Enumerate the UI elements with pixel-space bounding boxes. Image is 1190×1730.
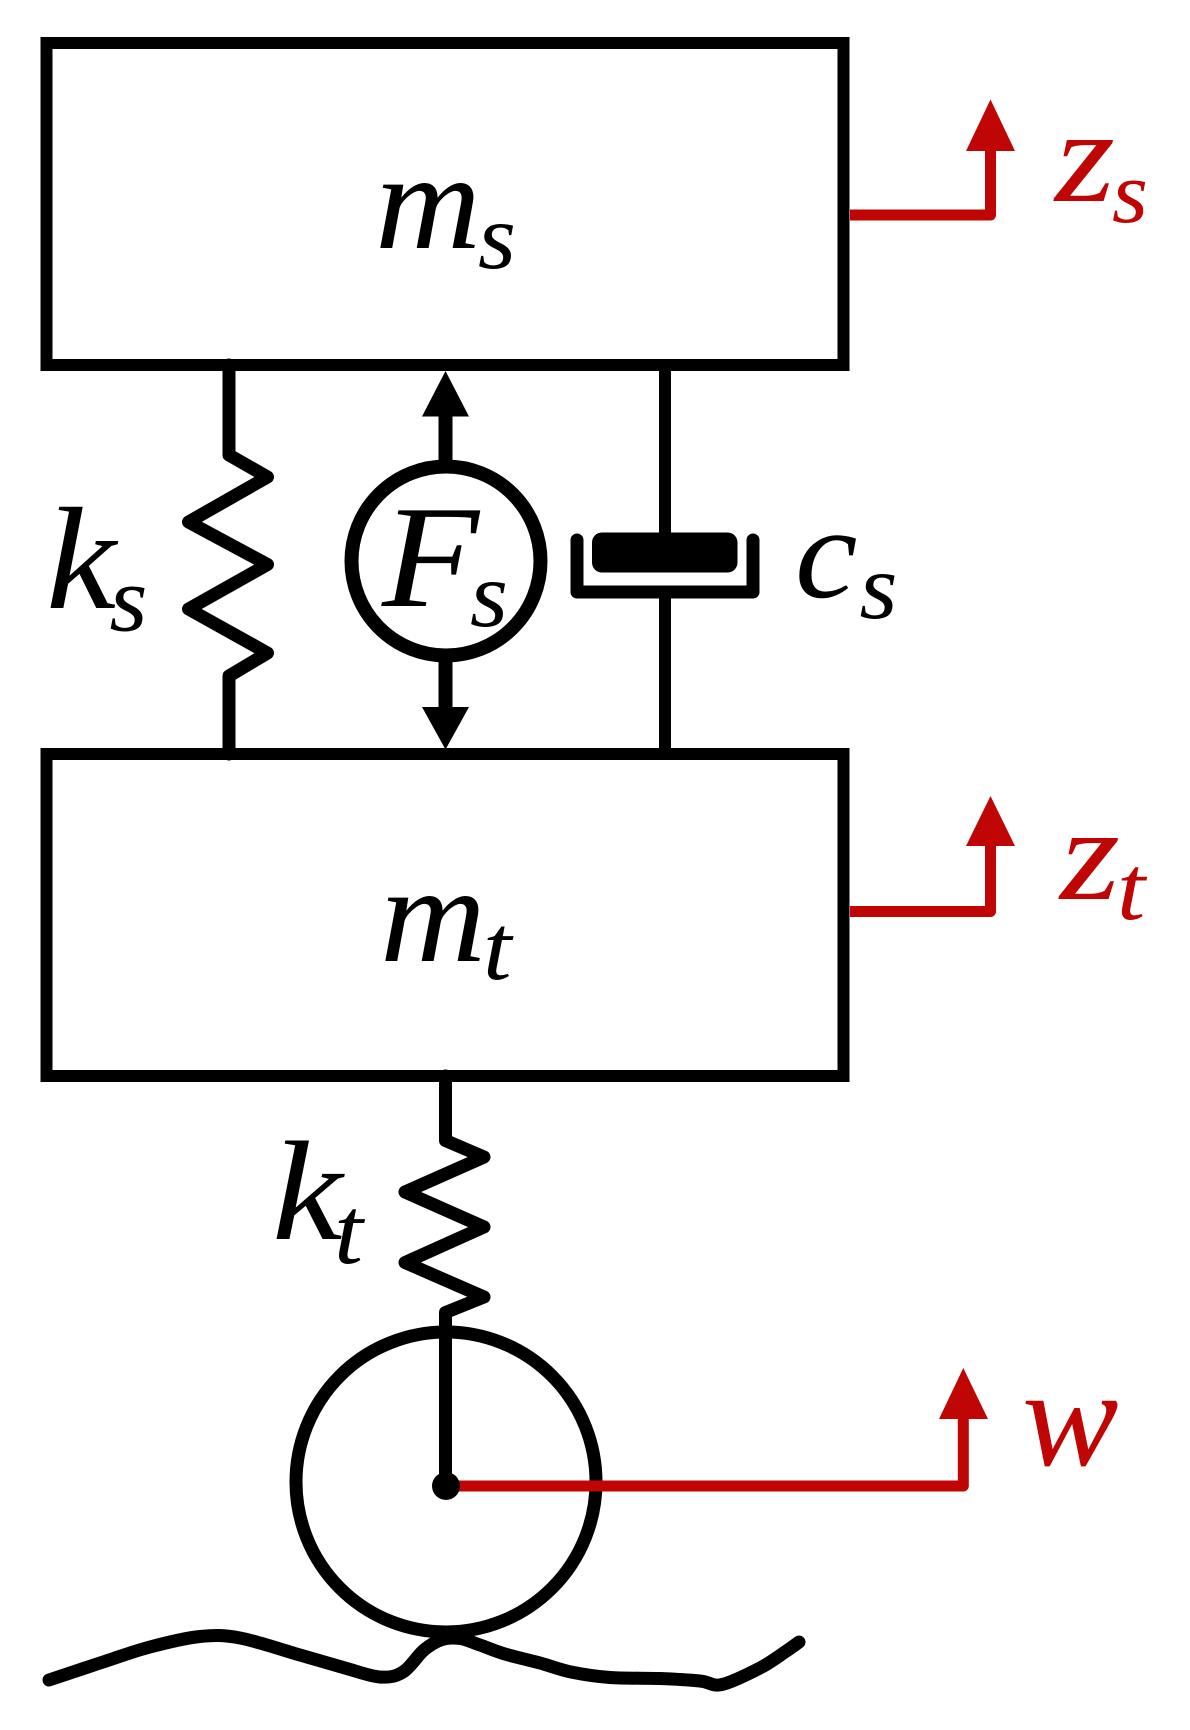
svg-text:s: s: [110, 549, 148, 652]
actuator force arrow up head: [422, 371, 469, 417]
red annotation z_t: [850, 780, 1148, 939]
svg-text:t: t: [483, 897, 514, 1000]
svg-text:m: m: [375, 125, 481, 278]
svg-text:t: t: [1117, 837, 1148, 939]
wheel hub dot: [432, 1472, 460, 1500]
label F_s: [381, 476, 508, 647]
damper cup: [577, 540, 753, 592]
label c_s: [795, 481, 898, 639]
svg-text:s: s: [478, 186, 516, 289]
actuator force arrow up stem: [439, 412, 453, 470]
svg-text:s: s: [860, 536, 898, 639]
label m_s: [375, 125, 516, 289]
red annotation w: [446, 1341, 1119, 1496]
svg-text:s: s: [470, 544, 508, 647]
svg-text:c: c: [795, 481, 858, 626]
label k_t: [272, 1112, 366, 1284]
damper piston plate: [592, 533, 738, 573]
actuator force arrow down head: [422, 707, 469, 750]
label k_s: [46, 478, 148, 652]
svg-text:s: s: [1112, 145, 1148, 242]
svg-text:m: m: [380, 838, 486, 991]
svg-text:w: w: [1022, 1341, 1119, 1496]
damper c_s top rod: [659, 365, 671, 545]
label m_t: [380, 838, 514, 1000]
svg-text:z: z: [1053, 82, 1115, 230]
red annotation z_s: [850, 82, 1148, 242]
damper bottom rod: [659, 595, 671, 754]
wheel: [296, 1332, 596, 1632]
spring k_s: [189, 365, 268, 754]
svg-text:z: z: [1058, 780, 1120, 928]
actuator F_s circle: [352, 467, 541, 656]
mass m_s box: [47, 43, 844, 365]
svg-text:F: F: [381, 476, 481, 638]
mass m_t box: [47, 754, 844, 1076]
svg-text:k: k: [46, 478, 118, 640]
spring k_t: [405, 1076, 484, 1486]
svg-text:t: t: [334, 1178, 366, 1284]
actuator force arrow down stem: [439, 652, 453, 710]
road profile: [49, 1635, 799, 1685]
